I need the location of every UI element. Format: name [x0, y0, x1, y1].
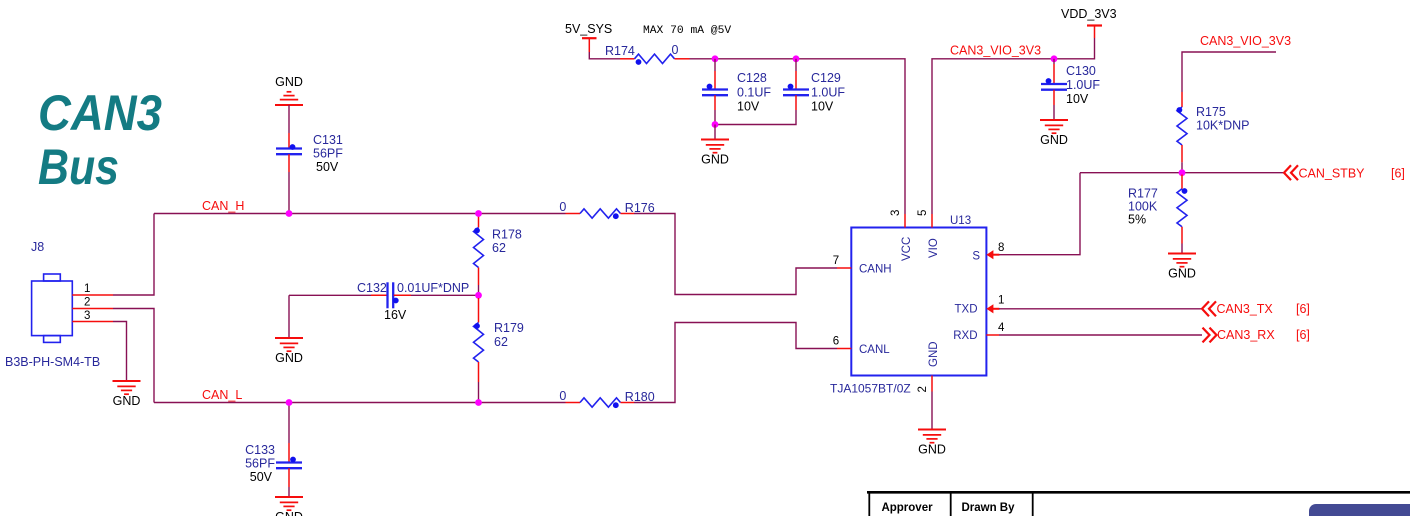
IC U13 TJA1057BT/0Z: [851, 228, 986, 376]
junction C129 top: [793, 55, 800, 62]
svg-text:R174: R174: [605, 44, 635, 58]
capacitor C132 0.01UF*DNP 16V: [371, 294, 388, 296]
wire CAN_H to U13 CANH: [634, 214, 837, 295]
svg-text:GND: GND: [701, 153, 729, 167]
U13 pin 1 TXD: [986, 304, 993, 313]
svg-text:CANH: CANH: [859, 264, 892, 276]
svg-text:R177: R177: [1128, 187, 1158, 201]
svg-text:VCC: VCC: [901, 237, 913, 261]
svg-text:10K*DNP: 10K*DNP: [1196, 119, 1250, 133]
wire C133 to ground: [288, 487, 290, 497]
ground (C132): [275, 337, 303, 339]
resistor R179 62: [478, 298, 480, 323]
U13 pin 6 CANL: [837, 348, 851, 350]
svg-text:CAN3: CAN3: [38, 85, 162, 141]
svg-text:GND: GND: [1040, 133, 1068, 147]
svg-text:56PF: 56PF: [313, 147, 343, 161]
capacitor C130 1.0UF 10V: [1053, 64, 1055, 84]
port CAN_STBY: [1284, 165, 1298, 180]
resistor R176 0: [566, 213, 581, 215]
wire to C130: [1053, 59, 1055, 64]
junction C128 top: [712, 55, 719, 62]
port CAN3_RX: [1203, 328, 1217, 343]
wire CAN_L to U13 CANL: [634, 323, 837, 403]
U13 pin 2 GND: [931, 376, 933, 392]
svg-text:3: 3: [84, 310, 90, 322]
port CAN3_TX: [1202, 301, 1216, 316]
svg-text:B3B-PH-SM4-TB: B3B-PH-SM4-TB: [5, 355, 100, 369]
svg-text:C130: C130: [1066, 64, 1096, 78]
svg-text:7: 7: [833, 255, 839, 267]
svg-text:CAN_H: CAN_H: [202, 199, 244, 213]
junction CAN_L / C133: [286, 399, 293, 406]
svg-text:50V: 50V: [316, 160, 339, 174]
wire CAN_L left segment: [154, 402, 566, 404]
svg-text:TXD: TXD: [955, 304, 978, 316]
wire to C128: [714, 59, 716, 71]
wire CAN3_VIO_3V3 to R175: [1182, 52, 1276, 92]
junction CAN_H / C131: [286, 210, 293, 217]
svg-text:4: 4: [998, 322, 1005, 334]
J8 pin 3: [72, 321, 113, 323]
wire R179 to CAN_L: [478, 382, 480, 403]
svg-text:2: 2: [84, 297, 90, 309]
svg-text:1.0UF: 1.0UF: [811, 86, 845, 100]
svg-text:GND: GND: [1168, 267, 1196, 281]
ground (C128/C129): [701, 139, 729, 141]
wire to ground: [714, 125, 716, 140]
svg-text:100K: 100K: [1128, 200, 1158, 214]
wire R178 to node: [478, 285, 480, 295]
ground (U13 pin 2): [918, 429, 946, 431]
resistor R177 100K 5%: [1181, 175, 1183, 189]
svg-text:3: 3: [890, 210, 902, 216]
svg-text:VIO: VIO: [928, 238, 940, 258]
svg-text:CANL: CANL: [859, 344, 890, 356]
svg-text:CAN3_VIO_3V3: CAN3_VIO_3V3: [1200, 34, 1291, 48]
resistor R178 62: [478, 215, 480, 228]
svg-text:R179: R179: [494, 321, 524, 335]
junction CAN_L / R179: [475, 399, 482, 406]
svg-text:[6]: [6]: [1391, 166, 1405, 180]
svg-text:[6]: [6]: [1296, 328, 1310, 342]
svg-text:Bus: Bus: [38, 139, 119, 195]
svg-text:S: S: [972, 251, 980, 263]
svg-text:10V: 10V: [811, 100, 834, 114]
svg-text:Approver: Approver: [881, 502, 933, 514]
svg-text:Drawn By: Drawn By: [961, 502, 1015, 514]
svg-text:C128: C128: [737, 71, 767, 85]
svg-text:RXD: RXD: [953, 330, 977, 342]
svg-text:CAN3_VIO_3V3: CAN3_VIO_3V3: [950, 44, 1041, 58]
capacitor C128 0.1UF 10V: [714, 71, 716, 90]
capacitor C129 1.0UF 10V: [795, 71, 797, 90]
wire gnd to C131: [288, 105, 290, 133]
svg-text:6: 6: [833, 336, 839, 348]
U13 pin 5 VIO: [931, 214, 933, 228]
svg-text:CAN3_TX: CAN3_TX: [1217, 302, 1274, 316]
svg-text:C132: C132: [357, 281, 387, 295]
svg-text:GND: GND: [113, 394, 141, 408]
wire to C129: [795, 59, 797, 71]
wire gnd corner to C132: [289, 294, 371, 296]
svg-text:0.01UF*DNP: 0.01UF*DNP: [397, 281, 469, 295]
svg-text:5%: 5%: [1128, 213, 1146, 227]
svg-text:VDD_3V3: VDD_3V3: [1061, 7, 1117, 21]
ground (C130): [1040, 119, 1068, 121]
junction C128 bottom: [712, 121, 719, 128]
svg-text:0: 0: [559, 200, 566, 214]
svg-text:10V: 10V: [737, 100, 760, 114]
wire CAN_STBY: [1080, 172, 1284, 174]
wire C130 to ground: [1053, 105, 1055, 120]
wire RXD to CAN3_RX port: [999, 334, 1202, 336]
svg-text:56PF: 56PF: [245, 457, 275, 471]
resistor R174 0: [620, 58, 635, 60]
capacitor C133 56PF 50V: [288, 443, 290, 463]
wire CAN_L to C133: [288, 403, 290, 444]
svg-text:R180: R180: [625, 390, 655, 404]
svg-text:CAN_STBY: CAN_STBY: [1299, 166, 1366, 180]
wire TXD to CAN3_TX port: [999, 308, 1202, 310]
svg-text:C133: C133: [245, 443, 275, 457]
junction R175 / R177 / CAN_STBY: [1179, 169, 1186, 176]
title block blue tab: [1309, 504, 1410, 516]
J8 pin 2: [72, 308, 113, 310]
ground (above C131): [275, 104, 303, 106]
svg-text:GND: GND: [918, 443, 946, 457]
connector J8 body: [32, 274, 73, 342]
junction C130 top: [1051, 55, 1058, 62]
wire C131 to CAN_H: [288, 172, 290, 214]
wire U13 VIO to VDD_3V3: [932, 38, 1095, 214]
junction C132 / R178 / R179: [475, 292, 482, 299]
svg-text:16V: 16V: [384, 308, 407, 322]
wire U13 GND pin to ground: [931, 392, 933, 430]
svg-text:1: 1: [998, 295, 1004, 307]
svg-text:R176: R176: [625, 201, 655, 215]
svg-text:GND: GND: [275, 75, 303, 89]
svg-text:CAN3_RX: CAN3_RX: [1217, 328, 1275, 342]
title block border: [867, 491, 1410, 494]
svg-text:1.0UF: 1.0UF: [1066, 78, 1100, 92]
svg-text:R178: R178: [492, 228, 522, 242]
wire C128 to gnd node: [714, 110, 716, 125]
junction CAN_H / R178: [475, 210, 482, 217]
wire J8 pin1 to CAN_H: [113, 214, 154, 296]
ground (below C133): [275, 496, 303, 498]
svg-text:0: 0: [672, 43, 679, 57]
svg-text:1: 1: [84, 283, 90, 295]
svg-text:62: 62: [494, 335, 508, 349]
svg-text:R175: R175: [1196, 105, 1226, 119]
svg-text:CAN_L: CAN_L: [202, 388, 242, 402]
wire CAN_H left segment: [154, 213, 566, 215]
svg-text:50V: 50V: [250, 470, 273, 484]
svg-text:C129: C129: [811, 71, 841, 85]
ground (R177): [1168, 253, 1196, 255]
svg-text:10V: 10V: [1066, 92, 1089, 106]
U13 pin 3 VCC: [904, 214, 906, 228]
wire C132 to R178/R179 node: [411, 294, 479, 296]
wire J8 pin3 to ground: [113, 322, 127, 382]
J8 pin 1: [72, 294, 113, 296]
resistor R175 10K*DNP: [1181, 92, 1183, 107]
wire CAN_STBY to U13 S pin: [999, 173, 1080, 255]
svg-text:C131: C131: [313, 133, 343, 147]
svg-text:J8: J8: [31, 240, 44, 254]
svg-text:U13: U13: [950, 215, 971, 227]
svg-text:62: 62: [492, 241, 506, 255]
svg-text:GND: GND: [275, 351, 303, 365]
wire J8 pin2 to CAN_L: [113, 309, 154, 403]
U13 pin 8 S: [986, 250, 993, 259]
U13 pin 7 CANH: [837, 267, 851, 269]
ground (J8 pin3): [113, 380, 141, 382]
svg-text:0: 0: [559, 389, 566, 403]
svg-text:MAX 70 mA @5V: MAX 70 mA @5V: [643, 25, 731, 37]
svg-text:TJA1057BT/0Z: TJA1057BT/0Z: [830, 382, 911, 396]
wire R174 to U13 VCC: [690, 59, 906, 214]
svg-text:GND: GND: [928, 341, 940, 367]
svg-text:GND: GND: [275, 510, 303, 516]
wire R175 to CAN_STBY: [1181, 162, 1183, 172]
capacitor C131 56PF 50V: [288, 133, 290, 149]
svg-text:0.1UF: 0.1UF: [737, 86, 771, 100]
svg-text:[6]: [6]: [1296, 302, 1310, 316]
wire C129 bottom to C128 bottom: [715, 110, 796, 125]
wire R177 to ground: [1181, 244, 1183, 254]
svg-text:8: 8: [998, 242, 1004, 254]
wire C132 to ground: [288, 295, 290, 338]
resistor R180 0: [566, 402, 581, 404]
wire 5V_SYS to R174: [589, 52, 620, 59]
svg-text:2: 2: [917, 386, 929, 392]
U13 pin 4 RXD: [986, 334, 999, 336]
svg-text:5: 5: [917, 210, 929, 216]
svg-text:5V_SYS: 5V_SYS: [565, 22, 612, 36]
